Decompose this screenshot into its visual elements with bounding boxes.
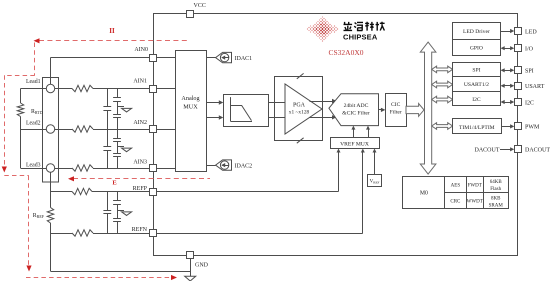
- wire PGA to ADC (-): [310, 115, 337, 119]
- wire AIN0 to Lead1: [51, 58, 150, 85]
- svg-text:CHIPSEA: CHIPSEA: [343, 32, 378, 41]
- svg-text:64KB: 64KB: [490, 180, 503, 185]
- svg-text:WWDT: WWDT: [467, 200, 483, 205]
- svg-text:I/O: I/O: [525, 47, 534, 53]
- svg-text:USART1/2: USART1/2: [464, 82, 489, 88]
- svg-text:24bit ADC: 24bit ADC: [344, 103, 369, 109]
- svg-text:TIM1/4/LPTIM: TIM1/4/LPTIM: [459, 125, 495, 131]
- svg-text:VCC: VCC: [194, 3, 206, 9]
- loop E dashed line (middle): [68, 176, 210, 181]
- svg-text:I2C: I2C: [525, 100, 534, 106]
- svg-text:VREF: VREF: [370, 179, 380, 184]
- svg-text:&CIC Filter: &CIC Filter: [342, 110, 370, 116]
- bus arrow CIC to system bus: [406, 104, 424, 117]
- wire GPIO to I/O pin (bidirectional): [501, 46, 515, 50]
- wire Lead3 to R3: [55, 168, 72, 170]
- block anti-alias low-pass filter: [224, 95, 269, 127]
- pin USART: [515, 83, 522, 90]
- svg-text:IDAC2: IDAC2: [235, 164, 253, 170]
- pin I2C: [515, 99, 522, 106]
- block VREF MUX: [331, 138, 380, 149]
- capacitor Cd2 (differential): [103, 129, 111, 168]
- wire Analog MUX to LPF (-): [206, 115, 223, 119]
- resistor R2 (Lead2 series): [72, 126, 93, 132]
- svg-text:II: II: [109, 27, 115, 35]
- svg-text:E: E: [112, 180, 116, 187]
- pin AIN3: [150, 165, 157, 172]
- connector circle Lead1: [46, 84, 54, 92]
- wire Analog MUX to IDAC1: [206, 57, 216, 59]
- svg-text:Lead3: Lead3: [26, 162, 41, 168]
- capacitor Cd1 (differential): [103, 89, 111, 130]
- block 24bit ADC &CIC Filter: [329, 94, 379, 126]
- block SPI / USART / I2C: [453, 63, 501, 106]
- wire AIN3 to Analog MUX: [157, 168, 176, 170]
- wire DACOUT to pin: [500, 147, 514, 151]
- svg-text:SPI: SPI: [525, 69, 534, 75]
- pin SPI: [515, 67, 522, 74]
- ground (power): [185, 276, 196, 281]
- svg-text:x1 ~x128: x1 ~x128: [289, 110, 310, 116]
- wire Lead1 to R1: [55, 88, 72, 90]
- resistor R1 (Lead1 series): [72, 85, 93, 91]
- pin VCC: [187, 11, 194, 18]
- wire AIN1 to Analog MUX: [157, 88, 176, 90]
- wire REFP node to R4: [51, 191, 73, 193]
- capacitor Cc3b (common-mode bottom): [113, 219, 121, 234]
- svg-text:GPIO: GPIO: [470, 46, 483, 52]
- svg-text:Flash: Flash: [490, 187, 501, 192]
- chip boundary CS32A0X0: [154, 14, 518, 256]
- wire AIN0 to Analog MUX: [157, 57, 176, 59]
- pin AIN2: [150, 126, 157, 133]
- svg-text:Analog: Analog: [181, 95, 199, 102]
- svg-text:M0: M0: [420, 190, 428, 196]
- bus arrow to SPI: [432, 66, 453, 73]
- svg-text:REFN: REFN: [132, 227, 148, 233]
- svg-text:8KB: 8KB: [491, 196, 501, 201]
- capacitor Cc1a (common-mode top): [113, 89, 121, 115]
- block CIC Filter: [386, 94, 407, 127]
- wire VREF MUX to ADC (ref b): [366, 126, 370, 137]
- pin REFP: [150, 189, 157, 196]
- pin DACOUT: [515, 146, 522, 153]
- block Analog MUX: [176, 51, 207, 172]
- wire Analog MUX to IDAC2: [206, 165, 216, 167]
- pin AIN0: [150, 55, 157, 62]
- loop II dashed left segment: [2, 43, 35, 173]
- svg-text:CIC: CIC: [391, 102, 401, 108]
- ground (analog) at cluster 3: [117, 211, 132, 216]
- bus arrow to USART: [432, 81, 453, 88]
- ground (analog) at cluster 2: [117, 147, 132, 152]
- wire LPF to PGA (+): [268, 102, 285, 104]
- wire R_RTD bottom: [20, 117, 22, 130]
- bus arrow to TIM: [432, 123, 453, 130]
- pin I/O: [515, 45, 522, 52]
- svg-text:AIN0: AIN0: [134, 47, 148, 53]
- svg-text:IDAC1: IDAC1: [235, 56, 253, 62]
- svg-text:Lead1: Lead1: [26, 79, 41, 85]
- op-amp PGA triangle: [285, 84, 322, 134]
- block Vref source: [368, 175, 382, 187]
- block TIM1/4/LPTIM: [453, 119, 502, 134]
- svg-text:AES: AES: [451, 183, 461, 188]
- pin PWM: [515, 123, 522, 130]
- svg-text:SRAM: SRAM: [489, 203, 504, 208]
- svg-text:DACOUT: DACOUT: [525, 148, 550, 154]
- block LED Driver / GPIO: [453, 23, 501, 56]
- wire R_REF to REFN node: [50, 223, 52, 233]
- svg-text:AIN3: AIN3: [133, 160, 147, 166]
- loop II dashed line (top): [34, 38, 191, 43]
- svg-text:VREF MUX: VREF MUX: [340, 141, 369, 147]
- wire SPI to SPI pin (bidirectional): [501, 68, 515, 72]
- current source IDAC1: [216, 52, 232, 62]
- connector J1 (lead terminal block): [43, 78, 59, 183]
- wire Vref to VREF MUX: [373, 149, 377, 175]
- wire I2C to I2C pin (bidirectional): [501, 100, 515, 104]
- block M0 core table: [403, 176, 509, 208]
- wire GND to ground: [190, 259, 192, 277]
- resistor R5 (REFN series): [72, 230, 93, 236]
- resistor R_RTD: [17, 103, 23, 117]
- wire Lead2 to R2: [55, 129, 72, 131]
- ground (analog) at cluster 1: [117, 107, 132, 112]
- svg-text:SPI: SPI: [472, 68, 480, 74]
- svg-text:CS32A0X0: CS32A0X0: [329, 48, 364, 57]
- pin REFN: [150, 230, 157, 237]
- wire Lead3 left stub: [21, 168, 47, 170]
- wire R5 to REFN: [93, 233, 150, 235]
- wire ADC to CIC: [379, 108, 386, 112]
- svg-text:AIN2: AIN2: [133, 120, 147, 126]
- svg-text:FWDT: FWDT: [468, 183, 482, 188]
- svg-text:GND: GND: [195, 262, 209, 268]
- svg-text:MUX: MUX: [183, 104, 198, 111]
- capacitor Cc1b (common-mode bottom): [113, 115, 121, 130]
- wire USART to USART pin (bidirectional): [501, 84, 515, 88]
- svg-text:LED Driver: LED Driver: [463, 29, 490, 35]
- pin LED: [515, 28, 522, 35]
- wire PGA to ADC (+): [310, 99, 337, 103]
- wire REFP to VREF MUX: [157, 149, 341, 192]
- svg-text:RREF: RREF: [33, 213, 45, 219]
- logo Chipsea diamond cluster: [307, 16, 339, 41]
- wire AIN2 to Analog MUX: [157, 129, 176, 131]
- svg-text:DACOUT: DACOUT: [475, 148, 500, 154]
- resistor R3 (Lead3 series): [72, 165, 93, 171]
- wire REFN to VREF MUX: [157, 149, 365, 234]
- wire Lead2-Lead3 short: [20, 129, 22, 168]
- svg-text:I2C: I2C: [472, 97, 481, 103]
- op-amp PGA (chopper box): [275, 73, 323, 143]
- svg-text:REFP: REFP: [133, 186, 148, 192]
- capacitor Cc2a (common-mode top): [113, 129, 121, 153]
- wire R_RTD top: [20, 89, 22, 104]
- svg-text:PGA: PGA: [293, 102, 306, 108]
- wire Lead3 down to REFP node: [50, 172, 52, 191]
- svg-text:Filter: Filter: [390, 109, 402, 115]
- connector circle Lead2: [46, 125, 54, 133]
- svg-text:Lead2: Lead2: [26, 121, 41, 127]
- capacitor Cc2b (common-mode bottom): [113, 154, 121, 169]
- pin AIN1: [150, 86, 157, 93]
- wire VREF MUX to ADC (ref a): [351, 126, 355, 137]
- wire TIM to PWM pin: [501, 124, 514, 128]
- wire R3 to AIN3: [93, 168, 150, 170]
- wire R2 to AIN2: [93, 129, 150, 131]
- loop dashed bottom segment: [26, 275, 177, 280]
- wire R4 to REFP: [92, 191, 150, 193]
- svg-text:CRC: CRC: [450, 200, 461, 205]
- wire REFP node down to R_REF: [50, 192, 52, 208]
- svg-text:AIN1: AIN1: [133, 79, 147, 85]
- wire LED Driver to LED pin: [500, 29, 514, 33]
- pin GND: [187, 252, 194, 259]
- bus arrow to I2C: [432, 96, 453, 103]
- current source IDAC2: [216, 160, 232, 170]
- logo text 芯海科技 (stroke approximation): [344, 22, 385, 31]
- capacitor Cd3 (differential): [103, 192, 111, 234]
- svg-text:LED: LED: [525, 29, 537, 35]
- wire Lead1 left stub: [21, 88, 47, 90]
- wire Lead2 left stub: [21, 129, 47, 131]
- wire R1 to AIN1: [93, 88, 150, 90]
- svg-text:PWM: PWM: [525, 125, 540, 131]
- svg-text:USART: USART: [525, 84, 545, 90]
- resistor R4 (REFP series): [72, 188, 92, 194]
- resistor R_REF: [47, 208, 53, 224]
- wire Analog MUX to LPF (+): [206, 100, 223, 104]
- svg-text:RRTD: RRTD: [31, 109, 43, 115]
- wire LPF to PGA (-): [268, 117, 285, 119]
- bus arrow (vertical system bus): [420, 42, 436, 174]
- wire REFN node to R5: [51, 233, 73, 235]
- wire REFN node to ground rail: [51, 233, 191, 272]
- capacitor Cc3a (common-mode top): [113, 192, 121, 219]
- connector circle Lead3: [46, 164, 54, 172]
- loop E dashed segment (left bottom): [4, 176, 31, 272]
